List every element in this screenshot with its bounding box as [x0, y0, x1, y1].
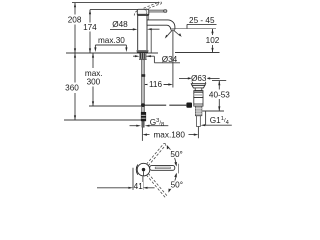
arrow spray left [165, 35, 168, 39]
svg-text:50°: 50° [170, 150, 182, 159]
threaded supply rod [141, 60, 144, 112]
svg-text:max.180: max.180 [153, 131, 185, 140]
dia 48 leader [110, 28, 133, 30]
extension line top of head (174 ref) [90, 9, 137, 11]
text label backgrounds [64, 15, 230, 191]
hose end plane (max.300 ref) [89, 105, 142, 107]
arrow arc lower top [174, 173, 177, 178]
G 3/8 leader [130, 125, 169, 127]
arrow arc upper bottom [174, 162, 177, 167]
arrow 174 top [89, 10, 91, 15]
deck extension right (102 bottom ref) [175, 52, 220, 54]
waste upper body [194, 91, 203, 98]
svg-text:Ø34: Ø34 [162, 55, 178, 64]
arrow 208 top [74, 3, 76, 8]
shank washer [139, 58, 147, 61]
arrow 360 bottom [74, 115, 76, 120]
svg-text:40-53: 40-53 [209, 91, 230, 100]
extension line top of tilted lever (208 ref) [72, 2, 160, 4]
head cartridge box [137, 9, 149, 15]
dimension 116 line [145, 31, 173, 88]
dimension 174 line [89, 10, 91, 53]
dimension max.300 line [92, 53, 94, 106]
pop-up rod [145, 104, 187, 106]
arrow spray right [179, 33, 182, 37]
arrow 40-53 top [218, 81, 220, 86]
swing arc upper [167, 146, 176, 165]
waste neck [195, 88, 202, 91]
svg-text:Ø63: Ø63 [191, 74, 207, 83]
swing arc lower [169, 174, 177, 192]
base ring [137, 50, 148, 51]
G3/8 hose end block [141, 112, 146, 121]
dimension max.180 line [142, 124, 198, 141]
arrow max30 right [125, 47, 127, 52]
cartridge cap circle [137, 163, 150, 176]
top view of lever [136, 143, 175, 197]
arrow 208 bottom [74, 48, 76, 53]
arrow dia48 [133, 28, 138, 30]
bottom plane of supply rod (360 ref) [64, 119, 141, 121]
arrow max300 bottom [92, 101, 94, 106]
arrow G3/8 left [136, 125, 141, 127]
arrow arc lower bottom [168, 188, 170, 193]
spout outlet extension line [175, 28, 216, 30]
svg-text:102: 102 [206, 36, 220, 45]
mounting shank [140, 53, 147, 59]
faucet body column [138, 15, 147, 50]
arrow 360 top [74, 53, 76, 58]
dimension 102 line [212, 29, 214, 53]
svg-text:max.30: max.30 [98, 36, 125, 45]
svg-text:25 - 45: 25 - 45 [189, 16, 215, 25]
lever swing dashed arc [134, 11, 137, 16]
pop-up waste assembly [191, 84, 205, 127]
lever handle horizontal [149, 10, 164, 12]
arrow max30 left [94, 47, 96, 52]
arrow dia34 left [135, 55, 140, 57]
dimension texts [65, 15, 230, 191]
arrow G3/8 right [145, 125, 150, 127]
arrow 174 bottom [89, 48, 91, 53]
counter deck line [66, 52, 158, 54]
waste threaded tail [195, 106, 202, 116]
dia 34 leader [133, 56, 180, 63]
pop-up pull rod [150, 29, 152, 52]
dashed lever up 50 deg [146, 143, 165, 165]
svg-text:41: 41 [134, 182, 144, 191]
arrow dia48 right [147, 28, 152, 30]
arrow max180 right [194, 134, 199, 136]
arrow arc upper top [167, 145, 169, 150]
dimension 360 line [74, 53, 76, 120]
dimension 40-53 line [202, 81, 226, 111]
arrow 116 left [145, 83, 150, 85]
waste lower body [194, 98, 203, 107]
pop-up rod coupler [186, 103, 192, 108]
aerator [171, 29, 175, 30]
arrow 102 top [211, 29, 213, 34]
max.30 leader [95, 45, 126, 48]
waste flange [191, 84, 205, 88]
spray angle line right [174, 30, 181, 36]
spray angle line left [166, 30, 172, 37]
lever tip plane tick [178, 164, 180, 174]
arrow dia63 right [206, 77, 211, 79]
arrow 41 left [128, 187, 133, 189]
dia 63 leader [179, 78, 220, 83]
arrow 40-53 bottom [218, 106, 220, 111]
arrow max300 top [92, 53, 94, 58]
svg-text:174: 174 [83, 23, 97, 32]
arrow G1 1/4 [201, 124, 206, 126]
arrow 41 right [143, 187, 148, 189]
spout [147, 20, 175, 29]
dia 48 right leader [151, 28, 160, 30]
lever rod top view [150, 165, 175, 170]
arrow dia63 left [188, 77, 193, 79]
lever handle tilted (dashed) [144, 1, 162, 10]
dimension 208 line [74, 3, 76, 53]
arrow max180 left [142, 134, 147, 136]
arrow dia34 right [146, 55, 151, 57]
svg-text:Ø48: Ø48 [112, 20, 128, 29]
waste tail tube [197, 116, 201, 127]
svg-text:360: 360 [65, 84, 79, 93]
arrow 102 bottom [211, 48, 213, 53]
hose end stem [142, 121, 145, 127]
25-45 leader [187, 24, 217, 28]
svg-text:208: 208 [68, 15, 82, 24]
handle front crescent [136, 165, 138, 175]
arrowheads [74, 3, 221, 193]
hose tee on rod [142, 74, 146, 77]
dimension 41 lines [97, 168, 155, 190]
dashed lever down 50 deg [146, 173, 167, 197]
svg-text:50°: 50° [171, 181, 183, 190]
arrow 116 right [168, 83, 173, 85]
cap center dot [142, 168, 145, 171]
svg-text:300: 300 [87, 77, 101, 86]
faucet front view [134, 1, 192, 127]
rod ball joint [141, 103, 145, 107]
G1 1/4 leader [204, 111, 232, 125]
svg-text:116: 116 [149, 80, 162, 89]
spout joint line [148, 15, 150, 25]
